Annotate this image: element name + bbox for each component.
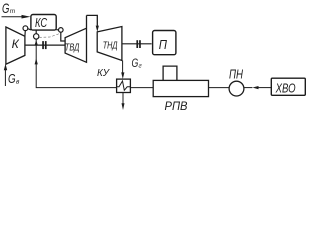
- arrowhead fuel into KC: [22, 15, 31, 19]
- node valve circle V1 (compressor outlet to KC): [24, 31, 26, 37]
- thin bypass line from V2 to gas duct: [39, 33, 60, 37]
- air inlet wire Gv: [4, 70, 6, 86]
- wire XVO to PN: [258, 87, 271, 89]
- arrowhead gas into KU: [121, 72, 124, 79]
- feedwater wire KU to RPV: [130, 87, 153, 89]
- svg-text:КУ: КУ: [97, 68, 111, 79]
- svg-text:П: П: [159, 38, 168, 52]
- KU heater zigzag: [117, 81, 131, 90]
- shaft TND to P: [122, 43, 152, 45]
- deaerator tank RPV: [153, 80, 208, 96]
- pump PN circle: [229, 81, 244, 96]
- svg-text:КС: КС: [35, 15, 48, 30]
- svg-text:РПВ: РПВ: [165, 101, 188, 113]
- crossover duct TVD to TND: [87, 15, 98, 26]
- svg-text:m: m: [10, 8, 16, 15]
- arrowhead exhaust down: [122, 103, 125, 110]
- exhaust wire down from KU: [122, 93, 124, 104]
- coupling TND-P: [136, 40, 140, 48]
- generator box P: [153, 31, 176, 55]
- RPV neck: [163, 66, 177, 80]
- svg-text:G: G: [2, 0, 9, 16]
- wire fuel line into KC: [2, 16, 23, 18]
- arrowhead air into K: [4, 64, 7, 71]
- label Gг: [132, 56, 143, 70]
- node valve circle V2 (steam injection into KC): [35, 30, 37, 34]
- shaft K to TVD: [25, 44, 65, 46]
- arrowhead gas into TND: [96, 26, 99, 32]
- label Gт (fuel flow): [2, 0, 16, 16]
- coupling K-TVD: [42, 41, 46, 49]
- wire gas TND down to KU: [122, 61, 124, 73]
- node valve circle V3 (KC outlet to TVD): [56, 29, 58, 31]
- wire RPV to PN pump: [209, 87, 230, 89]
- turbine TND: [97, 27, 122, 61]
- svg-text:G: G: [132, 56, 139, 70]
- heat recovery boiler KU box: [117, 79, 131, 92]
- svg-text:ТВД: ТВД: [65, 43, 80, 54]
- arrowhead into PN: [252, 86, 258, 89]
- svg-text:ХВО: ХВО: [275, 82, 296, 96]
- arrowhead steam up (below circle): [35, 40, 38, 45]
- wire gas KC to TVD inlet: [61, 32, 65, 41]
- turbine TVD: [65, 15, 86, 62]
- combustion chamber KC: [31, 15, 56, 31]
- svg-text:ТНД: ТНД: [103, 40, 118, 51]
- svg-text:ПН: ПН: [229, 67, 243, 82]
- water treatment box XVO: [271, 78, 305, 95]
- steam line from KU up to V2: [36, 39, 116, 88]
- svg-text:в: в: [16, 79, 20, 86]
- svg-text:G: G: [8, 72, 16, 86]
- label Gв: [8, 72, 20, 86]
- arrowhead steam up (mid line): [35, 58, 38, 64]
- wire PN to arrowhead: [244, 87, 253, 89]
- compressor K: [6, 27, 25, 64]
